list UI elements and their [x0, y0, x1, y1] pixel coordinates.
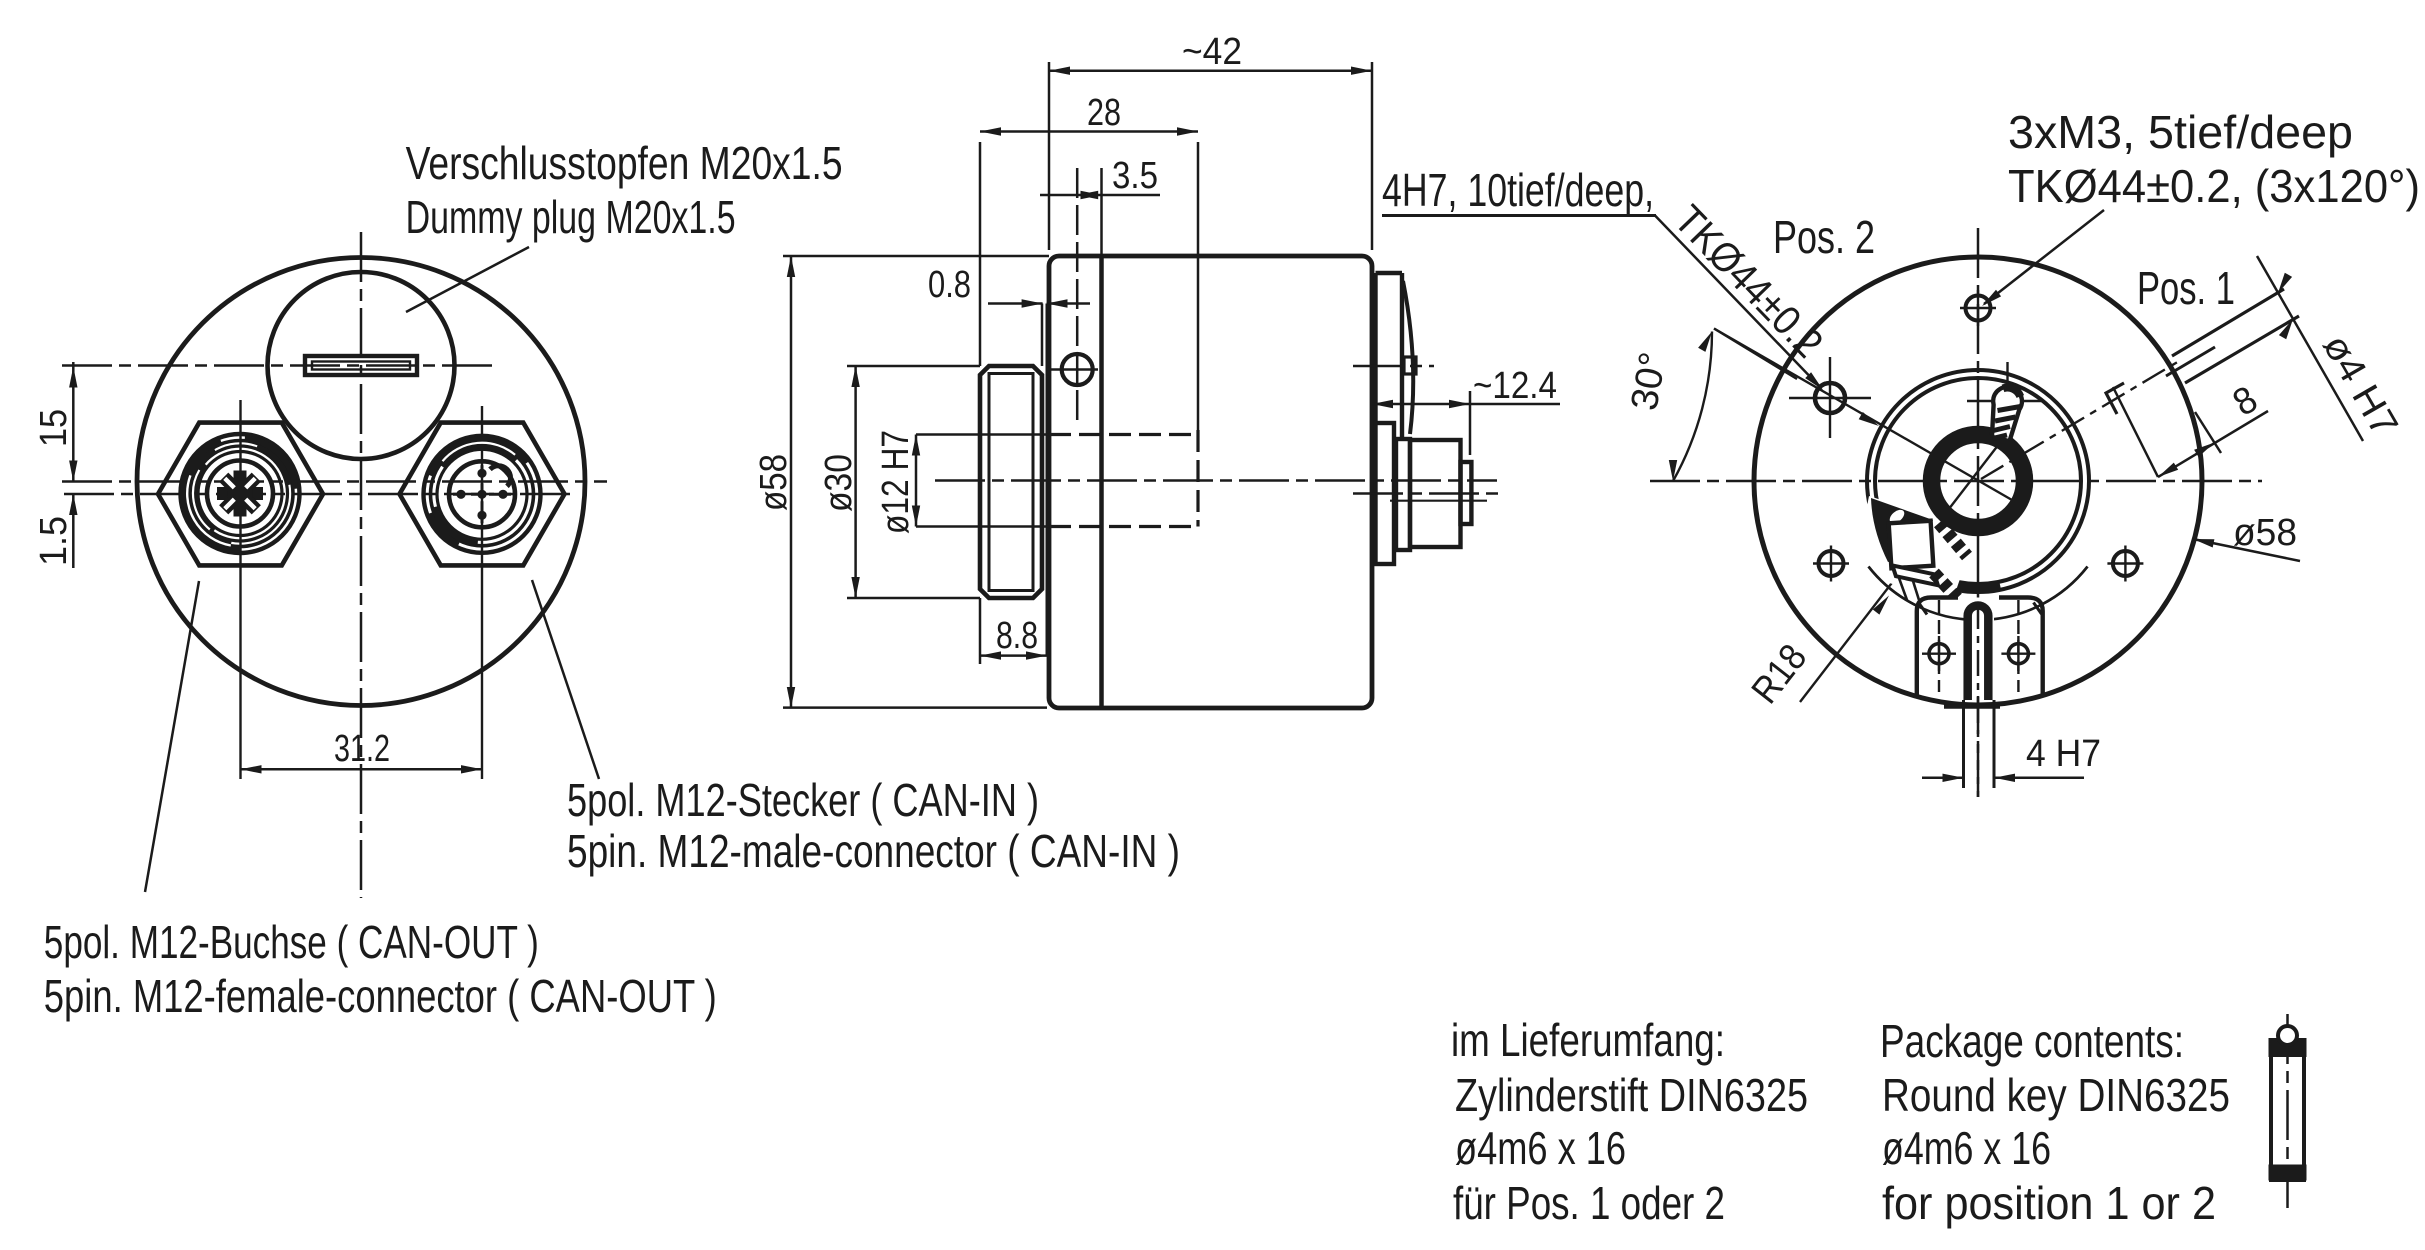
svg-text:3xM3, 5tief/deep: 3xM3, 5tief/deep — [2008, 106, 2353, 158]
svg-text:ø12 H7: ø12 H7 — [875, 430, 917, 534]
svg-text:1.5: 1.5 — [33, 516, 75, 566]
svg-text:5pol. M12-Stecker ( CAN-IN ): 5pol. M12-Stecker ( CAN-IN ) — [567, 774, 1039, 826]
svg-text:TKØ44±0.2, (3x120°): TKØ44±0.2, (3x120°) — [2008, 160, 2420, 212]
svg-text:3.5: 3.5 — [1112, 155, 1158, 197]
svg-text:0.8: 0.8 — [928, 264, 971, 306]
svg-text:Package contents:: Package contents: — [1880, 1015, 2184, 1067]
svg-text:Dummy plug M20x1.5: Dummy plug M20x1.5 — [406, 191, 736, 243]
svg-text:5pol. M12-Buchse ( CAN-OUT ): 5pol. M12-Buchse ( CAN-OUT ) — [44, 916, 539, 968]
svg-text:Round key DIN6325: Round key DIN6325 — [1882, 1069, 2230, 1121]
svg-text:~12.4: ~12.4 — [1473, 365, 1557, 407]
svg-text:15: 15 — [33, 409, 75, 447]
svg-text:~42: ~42 — [1182, 31, 1242, 73]
svg-text:28: 28 — [1087, 92, 1121, 134]
svg-text:ø4m6 x 16: ø4m6 x 16 — [1882, 1122, 2051, 1174]
svg-text:ø30: ø30 — [818, 454, 860, 512]
svg-text:4 H7: 4 H7 — [2026, 733, 2101, 775]
svg-text:Verschlusstopfen M20x1.5: Verschlusstopfen M20x1.5 — [406, 137, 843, 189]
svg-text:Zylinderstift DIN6325: Zylinderstift DIN6325 — [1455, 1069, 1808, 1121]
svg-text:für Pos. 1 oder 2: für Pos. 1 oder 2 — [1453, 1177, 1725, 1229]
svg-text:im Lieferumfang:: im Lieferumfang: — [1451, 1014, 1725, 1066]
svg-text:Pos. 2: Pos. 2 — [1773, 211, 1875, 263]
svg-text:31.2: 31.2 — [334, 728, 390, 770]
svg-text:4H7, 10tief/deep,: 4H7, 10tief/deep, — [1382, 164, 1654, 216]
svg-text:ø4m6 x 16: ø4m6 x 16 — [1455, 1122, 1626, 1174]
svg-text:ø58: ø58 — [753, 454, 795, 511]
svg-text:5pin. M12-male-connector ( CAN: 5pin. M12-male-connector ( CAN-IN ) — [567, 825, 1180, 877]
svg-text:ø58: ø58 — [2233, 512, 2297, 554]
svg-text:8.8: 8.8 — [996, 615, 1038, 657]
svg-text:5pin. M12-female-connector ( C: 5pin. M12-female-connector ( CAN-OUT ) — [44, 970, 717, 1022]
svg-text:for position 1 or 2: for position 1 or 2 — [1882, 1177, 2216, 1229]
svg-text:Pos. 1: Pos. 1 — [2137, 262, 2235, 314]
